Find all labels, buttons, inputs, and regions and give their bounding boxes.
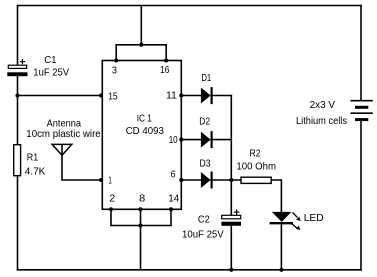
diode D1 [201, 87, 212, 104]
wire pin 11 to D1 [181, 95, 201, 97]
wire D2 cathode to bus [212, 139, 232, 141]
wire R2 to LED corner [271, 180, 281, 212]
svg-text:D3: D3 [200, 158, 211, 170]
node pin 15 [99, 93, 103, 97]
svg-text:R1: R1 [27, 151, 39, 163]
wire top supply rail [18, 5, 362, 7]
node pin 10 [179, 138, 183, 142]
wire left rail upper segment [17, 6, 19, 66]
svg-text:10: 10 [169, 134, 178, 146]
wire ground stem from bracket [140, 226, 142, 270]
wire pin 10 to D2 [181, 139, 201, 141]
svg-text:11: 11 [166, 89, 177, 101]
node C2 ground junction [229, 268, 233, 272]
wire pin 8 leg [140, 209, 142, 225]
svg-text:3: 3 [112, 65, 117, 77]
svg-text:C1: C1 [44, 54, 57, 66]
wire D1 cathode to bus [212, 95, 232, 97]
wire left rail lower segment [17, 176, 19, 270]
wire left rail middle segment [17, 76, 19, 145]
wire C2 to ground rail [230, 226, 232, 270]
svg-text:IC 1: IC 1 [137, 112, 152, 124]
svg-text:Lithium cells: Lithium cells [296, 115, 347, 127]
node pin 16 junction [164, 58, 168, 62]
resistor R2 [241, 177, 271, 183]
svg-text:1uF 25V: 1uF 25V [33, 67, 69, 79]
svg-text:16: 16 [160, 64, 170, 76]
svg-text:4.7K: 4.7K [25, 166, 46, 178]
wire right rail lower segment [360, 120, 362, 270]
node pin 2 junction [109, 207, 113, 211]
wire bottom ground rail [18, 269, 362, 271]
svg-text:100 Ohm: 100 Ohm [236, 160, 276, 172]
wire pin 6 to D3 [181, 179, 201, 181]
svg-text:R2: R2 [250, 147, 261, 159]
battery B1 2x3V lithium [350, 101, 372, 120]
node pin 11 [179, 93, 183, 97]
svg-text:8: 8 [139, 193, 145, 205]
node pin 3 junction [114, 58, 118, 62]
svg-text:6: 6 [171, 169, 176, 181]
node bottom bracket junction [138, 223, 142, 227]
resistor R1 [14, 145, 21, 176]
svg-text:15: 15 [108, 91, 118, 103]
svg-text:2: 2 [109, 193, 115, 205]
wire pin 15 to left rail [18, 95, 103, 97]
node pin 1 [99, 178, 103, 182]
capacitor C1 [7, 59, 27, 76]
wire right rail upper segment [360, 6, 362, 101]
svg-text:10cm plastic wire: 10cm plastic wire [26, 128, 101, 140]
wire top bracket pins 3-16 [116, 45, 166, 61]
node pin 14 junction [169, 207, 173, 211]
diode D3 [201, 172, 212, 189]
svg-text:14: 14 [168, 193, 179, 205]
node pin 8 junction [138, 207, 142, 211]
LED [270, 212, 301, 230]
node left rail pin 15 junction [15, 93, 19, 97]
diode D2 [201, 131, 212, 148]
svg-text:2x3 V: 2x3 V [310, 99, 335, 111]
node supply bracket junction [139, 43, 143, 47]
node D3 bus junction [229, 178, 233, 182]
wire bottom bracket pins 2-8-14 [111, 209, 171, 225]
capacitor C2 [221, 210, 241, 226]
wire antenna to pin 1 [62, 179, 102, 181]
wire diode cathode bus to C2 [230, 96, 232, 216]
svg-text:D1: D1 [201, 72, 211, 84]
svg-text:C2: C2 [198, 213, 210, 225]
svg-text:D2: D2 [199, 115, 210, 127]
svg-text:CD 4093: CD 4093 [126, 125, 164, 137]
wire battery top lead [360, 99, 362, 102]
svg-text:10uF 25V: 10uF 25V [182, 228, 224, 240]
svg-text:1: 1 [108, 175, 112, 187]
svg-text:LED: LED [304, 212, 324, 224]
wire LED to ground rail [280, 223, 282, 269]
wire D3 cathode to R2 [212, 179, 241, 181]
op-amp U1 IC body [102, 61, 181, 210]
node pin 6 [179, 178, 183, 182]
node LED ground junction [279, 268, 283, 272]
antenna [52, 144, 72, 180]
wire supply feed to IC [140, 6, 142, 45]
